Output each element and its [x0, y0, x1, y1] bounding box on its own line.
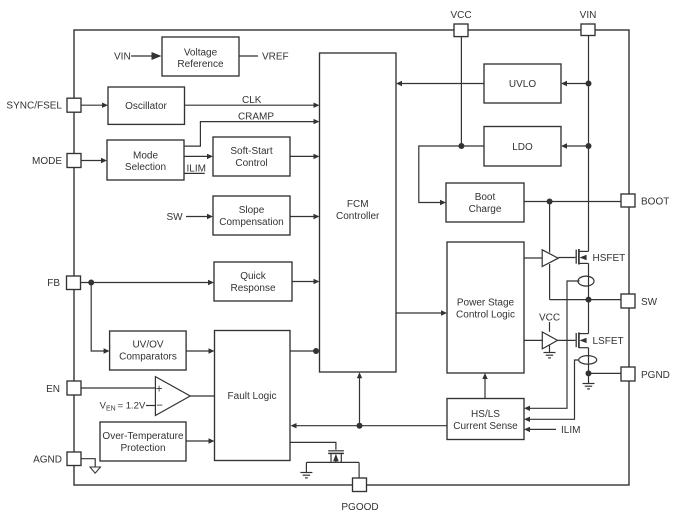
wire MODE to Mode Selection [81, 158, 107, 163]
svg-text:VCC: VCC [539, 313, 560, 324]
wire LDO output to Boot Charge [419, 146, 484, 205]
wire HS driver to HSFET gate [558, 257, 575, 259]
wire VCC stub to LS driver [549, 322, 551, 332]
block UVLO [484, 64, 561, 103]
outer device boundary [74, 30, 629, 485]
wire VCC pin line [458, 37, 464, 149]
wire current sense net: HS/LS Current Sense to Fault Logic and FCM [291, 372, 448, 429]
ground PGOOD FET ground symbol [300, 473, 312, 478]
svg-text:Protection: Protection [120, 443, 165, 454]
wire Slope Compensation to FCM Controller [290, 214, 320, 219]
ground power ground symbol [583, 384, 595, 389]
wire VIN line to LDO [561, 143, 592, 149]
svg-text:FB: FB [47, 278, 60, 289]
pin PGOOD [341, 478, 378, 513]
svg-text:Control: Control [235, 158, 267, 169]
svg-text:Control Logic: Control Logic [456, 310, 515, 321]
svg-text:Oscillator: Oscillator [125, 101, 167, 112]
svg-text:PGOOD: PGOOD [341, 502, 378, 513]
block Mode Selection [107, 140, 184, 180]
block Power Stage Control Logic [447, 242, 524, 373]
block Slope Compensation [213, 196, 290, 235]
svg-text:Reference: Reference [177, 59, 224, 70]
block Over-Temperature Protection [100, 422, 186, 461]
svg-text:VIN: VIN [580, 10, 597, 21]
svg-text:Charge: Charge [469, 204, 502, 215]
block Quick Response [214, 262, 292, 301]
ground LS driver ground symbol [544, 353, 556, 358]
svg-text:Compensation: Compensation [219, 217, 283, 228]
wire Boot Charge to BOOT pin [524, 199, 621, 205]
pin SW [621, 294, 658, 308]
current sensor LS ellipse [579, 356, 597, 365]
pin BOOT [621, 194, 669, 208]
svg-text:Controller: Controller [336, 211, 380, 222]
svg-text:Comparators: Comparators [119, 352, 177, 363]
ground analog ground symbol [90, 467, 100, 473]
wire SW to Slope Compensation [186, 214, 213, 219]
svg-text:SW: SW [641, 297, 658, 308]
current sensor HS ellipse [578, 276, 594, 286]
block FCM Controller [320, 53, 397, 372]
block LDO [484, 127, 561, 167]
wire FB node to Quick Response [81, 280, 215, 285]
block UV/OV Comparators [110, 331, 187, 370]
wire HS/LS Current Sense to Power Stage bottom [482, 373, 487, 399]
block Oscillator [108, 87, 185, 124]
svg-text:LSFET: LSFET [593, 336, 624, 347]
wire HSFET source to SW node [588, 263, 590, 299]
svg-text:SYNC/FSEL: SYNC/FSEL [6, 101, 62, 112]
wire PGND node to ground [588, 373, 590, 383]
wire Fault Logic to PGOOD FET gate [290, 442, 336, 449]
transistor HSFET [576, 249, 588, 265]
svg-text:Selection: Selection [125, 162, 166, 173]
svg-text:VEN = 1.2V: VEN = 1.2V [100, 401, 146, 413]
wire LS driver to ground [549, 345, 551, 352]
svg-text:CRAMP: CRAMP [238, 112, 274, 123]
svg-text:−: − [156, 400, 163, 412]
svg-text:AGND: AGND [33, 455, 62, 466]
svg-text:Power Stage: Power Stage [457, 298, 515, 309]
svg-text:UV/OV: UV/OV [132, 340, 163, 351]
svg-text:MODE: MODE [32, 156, 62, 167]
svg-text:Quick: Quick [240, 271, 267, 282]
wire boot supply to HS driver [549, 202, 551, 253]
pin PGND [621, 367, 670, 381]
svg-text:Boot: Boot [475, 192, 496, 203]
svg-text:Current Sense: Current Sense [453, 421, 518, 432]
wire VIN line down to HSFET drain [588, 36, 590, 252]
svg-text:CLK: CLK [242, 95, 262, 106]
wire LS current sense tap [524, 360, 579, 422]
wire HS current sense tap [524, 281, 580, 411]
svg-text:VCC: VCC [450, 10, 471, 21]
block Boot Charge [446, 183, 524, 222]
wire Mode Selection to Soft-Start Control [184, 154, 213, 159]
buffer HS gate driver [542, 250, 558, 267]
block Voltage Reference [162, 37, 239, 76]
wire EN to comparator [81, 387, 155, 389]
pin EN [46, 381, 81, 395]
wire VEN reference to comparator [146, 405, 155, 407]
wire SW node to LSFET drain [588, 300, 590, 334]
wire Over-Temperature Protection to Fault Logic [186, 438, 215, 443]
wire UV/OV Comparators to Fault Logic [186, 348, 215, 353]
buffer LS gate driver [542, 332, 557, 349]
wire ILIM stub from Mode Selection [184, 172, 205, 174]
svg-text:BOOT: BOOT [641, 197, 669, 208]
block HS/LS Current Sense [447, 399, 524, 440]
wire VIN to Voltage Reference [131, 52, 162, 60]
svg-text:Voltage: Voltage [184, 48, 218, 59]
wire PGOOD FET drain to PGOOD pin [358, 462, 360, 478]
svg-text:PGND: PGND [641, 370, 670, 381]
svg-text:ILIM: ILIM [561, 425, 580, 436]
block Fault Logic [215, 331, 291, 461]
svg-text:EN: EN [46, 384, 60, 395]
wire PGOOD FET source to ground [305, 462, 307, 472]
wire Power Stage to LS driver [524, 339, 542, 341]
svg-text:Mode: Mode [133, 151, 158, 162]
wire AGND to analog ground [81, 459, 95, 467]
svg-text:VIN: VIN [114, 52, 131, 63]
wire LSFET source to PGND node [586, 348, 592, 377]
pin MODE [32, 154, 81, 168]
wire PGND node to PGND pin [589, 372, 622, 374]
wire SYNC/FSEL to Oscillator [81, 103, 108, 108]
wire SW rail to SW pin [550, 297, 621, 303]
svg-text:LDO: LDO [512, 142, 533, 153]
transistor LSFET [576, 332, 588, 348]
wire Fault Logic to FCM Controller [290, 348, 319, 354]
svg-text:Soft-Start: Soft-Start [230, 146, 272, 157]
wire LS driver to LSFET gate [558, 339, 576, 341]
svg-text:Response: Response [230, 283, 275, 294]
svg-text:Over-Temperature: Over-Temperature [102, 431, 184, 442]
transistor PGOOD open-drain FET [306, 451, 359, 463]
wire ILIM to HS/LS Current Sense [524, 427, 556, 432]
wire CLK: Oscillator to FCM Controller [185, 103, 320, 108]
svg-text:VREF: VREF [262, 52, 289, 63]
wire FB down to UV/OV Comparators [91, 283, 109, 354]
pin FB [47, 276, 80, 290]
op-amp EN comparator [155, 377, 190, 416]
wire HS driver return to SW rail [549, 264, 551, 300]
wire Quick Response to FCM Controller [292, 279, 320, 284]
svg-text:Slope: Slope [239, 205, 265, 216]
svg-text:SW: SW [167, 212, 184, 223]
wire Soft-Start Control to FCM Controller [290, 154, 320, 159]
svg-text:Fault Logic: Fault Logic [228, 391, 277, 402]
svg-text:ILIM: ILIM [187, 164, 206, 175]
wire CRAMP: Mode Selection to FCM Controller [184, 119, 320, 146]
pin SYNC/FSEL [6, 98, 81, 112]
svg-text:UVLO: UVLO [509, 79, 536, 90]
node FB junction [88, 280, 94, 286]
wire VIN line to UVLO [561, 81, 592, 87]
wire UVLO to FCM Controller [396, 81, 484, 86]
wire comparator to Fault Logic [190, 395, 214, 397]
svg-text:+: + [156, 383, 163, 395]
block Soft-Start Control [213, 137, 290, 176]
pin VCC [450, 10, 471, 37]
wire Power Stage to HS driver [524, 257, 542, 259]
pin VIN [580, 10, 597, 36]
wire VREF from Voltage Reference [239, 55, 258, 57]
svg-text:FCM: FCM [347, 199, 369, 210]
svg-text:HSFET: HSFET [593, 253, 626, 264]
wire FCM Controller to Power Stage Control Logic [396, 310, 447, 315]
svg-text:HS/LS: HS/LS [471, 409, 500, 420]
pin AGND [33, 452, 81, 466]
